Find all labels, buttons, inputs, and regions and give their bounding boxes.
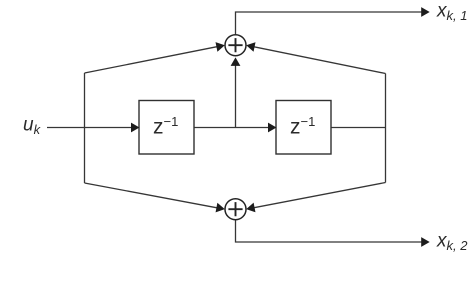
wire: second delay to right vertical	[331, 127, 386, 129]
arrowhead into delay Z1	[131, 123, 140, 133]
arrowhead tap into adder U1	[231, 57, 241, 66]
wire: between delay blocks	[194, 127, 268, 129]
wire: diagonal right-bottom to adder U2	[254, 183, 386, 208]
wire: adder U1 output to x_k1	[236, 12, 423, 34]
wire: input u_k to first delay	[47, 127, 132, 129]
svg-text:xk, 1: xk, 1	[436, 0, 467, 23]
delay block Z1	[139, 101, 194, 155]
svg-text:uk: uk	[23, 115, 42, 138]
svg-text:xk, 2: xk, 2	[436, 230, 468, 253]
arrowhead into delay Z2	[268, 123, 277, 133]
arrowhead right diagonal into adder U2	[245, 203, 255, 214]
delay block Z2	[276, 101, 331, 155]
arrowhead right diagonal into adder U1	[245, 40, 255, 51]
wire: tap up to adder U1	[235, 64, 237, 128]
adder U1	[225, 35, 246, 56]
arrowhead left diagonal into adder U2	[216, 203, 226, 214]
wire: diagonal right-top to adder U1	[254, 47, 386, 74]
wire: left branch vertical	[84, 73, 86, 183]
wire: diagonal left-top to adder U1	[85, 47, 218, 73]
adder U2	[225, 199, 246, 220]
arrowhead output x_k1	[421, 7, 430, 17]
arrowhead left diagonal into adder U1	[216, 40, 226, 51]
wire: diagonal left-bottom to adder U2	[85, 183, 218, 208]
arrowhead output x_k2	[421, 237, 430, 247]
wire: adder U2 output to x_k2	[236, 220, 423, 242]
wire: right branch vertical	[385, 74, 387, 183]
